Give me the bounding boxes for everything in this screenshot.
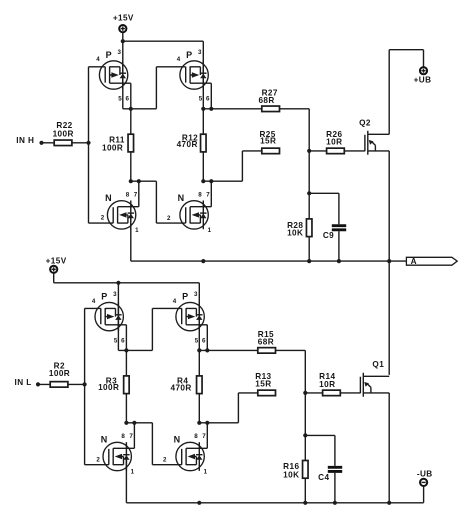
svg-text:IN H: IN H (16, 136, 34, 145)
svg-text:6: 6 (121, 337, 125, 344)
svg-text:470R: 470R (171, 383, 192, 392)
svg-text:+15V: +15V (113, 14, 134, 23)
svg-text:2: 2 (101, 215, 105, 222)
svg-text:-UB: -UB (417, 469, 433, 478)
svg-text:10K: 10K (287, 229, 303, 238)
svg-text:IN L: IN L (15, 378, 32, 387)
svg-text:P: P (106, 50, 112, 60)
svg-text:15R: 15R (260, 137, 276, 146)
svg-text:7: 7 (202, 433, 206, 440)
svg-text:P: P (101, 292, 107, 302)
svg-text:R16: R16 (283, 462, 299, 471)
svg-text:10R: 10R (326, 137, 342, 146)
svg-text:8: 8 (198, 192, 202, 199)
svg-text:N: N (101, 434, 108, 444)
svg-text:+UB: +UB (414, 75, 432, 84)
svg-text:2: 2 (167, 215, 171, 222)
svg-text:6: 6 (125, 96, 129, 103)
svg-text:68R: 68R (258, 96, 274, 105)
svg-text:100R: 100R (98, 383, 119, 392)
svg-text:1: 1 (204, 468, 208, 475)
svg-text:1: 1 (208, 227, 212, 234)
svg-text:C4: C4 (318, 473, 329, 482)
svg-text:P: P (182, 292, 188, 302)
svg-text:15R: 15R (255, 380, 271, 389)
svg-text:100R: 100R (102, 144, 123, 153)
svg-text:5: 5 (114, 337, 118, 344)
svg-text:1: 1 (135, 227, 139, 234)
svg-text:7: 7 (206, 192, 210, 199)
svg-text:+15V: +15V (46, 257, 67, 266)
svg-text:6: 6 (206, 96, 210, 103)
svg-text:3: 3 (113, 291, 117, 298)
svg-text:2: 2 (96, 456, 100, 463)
svg-text:Q2: Q2 (359, 119, 371, 128)
svg-text:N: N (174, 434, 181, 444)
svg-text:8: 8 (121, 433, 125, 440)
svg-text:2: 2 (163, 457, 167, 464)
svg-text:4: 4 (96, 56, 100, 63)
svg-text:5: 5 (118, 96, 122, 103)
svg-text:C9: C9 (323, 231, 334, 240)
svg-text:4: 4 (177, 56, 181, 63)
svg-text:8: 8 (126, 192, 130, 199)
svg-text:100R: 100R (49, 369, 70, 378)
svg-text:4: 4 (92, 298, 96, 305)
svg-text:P: P (186, 50, 192, 60)
svg-text:6: 6 (202, 337, 206, 344)
svg-text:100R: 100R (53, 130, 74, 139)
svg-text:4: 4 (173, 298, 177, 305)
svg-text:N: N (105, 193, 112, 203)
svg-text:7: 7 (134, 192, 138, 199)
svg-text:3: 3 (198, 49, 202, 56)
svg-text:8: 8 (194, 433, 198, 440)
svg-text:68R: 68R (258, 338, 274, 347)
svg-text:7: 7 (129, 433, 133, 440)
svg-text:A: A (411, 257, 417, 266)
svg-text:Q1: Q1 (372, 360, 384, 369)
svg-text:3: 3 (117, 49, 121, 56)
svg-text:3: 3 (194, 291, 198, 298)
svg-text:N: N (178, 193, 185, 203)
svg-text:10R: 10R (319, 380, 335, 389)
svg-text:10K: 10K (283, 471, 299, 480)
svg-text:5: 5 (199, 96, 203, 103)
svg-text:470R: 470R (177, 140, 198, 149)
svg-text:5: 5 (195, 337, 199, 344)
svg-text:1: 1 (131, 468, 135, 475)
